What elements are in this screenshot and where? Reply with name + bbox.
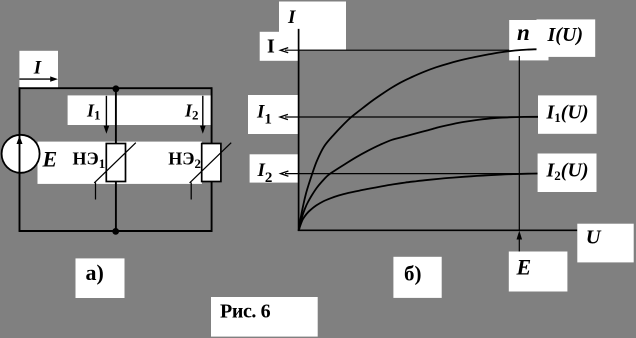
arrow I1 <box>105 96 107 127</box>
value box I1 <box>248 95 298 134</box>
svg-text:E: E <box>516 255 532 280</box>
value box I2 <box>250 154 298 182</box>
svg-text:Рис. 6: Рис. 6 <box>220 301 271 323</box>
nonlinear element НЭ1 body <box>106 144 125 182</box>
label box I (circuit current) <box>19 51 58 88</box>
value box I <box>260 32 299 61</box>
wire right branch НЭ2 <box>211 87 213 231</box>
curve I2(U) <box>299 174 538 231</box>
wire middle branch НЭ1 <box>115 88 117 232</box>
label band E НЭ1 НЭ2 <box>38 142 203 184</box>
wire left <box>19 87 21 231</box>
label band I1 I2 <box>68 95 212 125</box>
nonlinear element НЭ2 body <box>202 144 221 182</box>
svg-text:I: I <box>33 58 42 79</box>
level line I1 with arrow <box>285 116 538 118</box>
arrow E to axis <box>518 238 520 252</box>
НЭ2 diagonal <box>190 143 232 183</box>
label box U <box>577 224 633 263</box>
svg-text:I: I <box>267 36 275 58</box>
wire bottom <box>19 230 213 232</box>
level line I2 with arrow <box>285 173 538 175</box>
svg-text:I(U): I(U) <box>547 24 584 46</box>
svg-text:I2(U): I2(U) <box>546 160 589 184</box>
svg-text:I1(U): I1(U) <box>546 102 589 126</box>
label box а) <box>76 258 125 298</box>
НЭ1 tail <box>95 183 97 200</box>
junction bottom <box>112 228 119 235</box>
vertical line through n to E <box>518 56 520 230</box>
arrow I2 <box>202 96 204 127</box>
wire top <box>19 87 213 89</box>
node box n <box>509 20 548 60</box>
svg-text:I: I <box>287 7 296 28</box>
EMF source E circle <box>2 135 40 173</box>
label box I(U) <box>537 19 596 57</box>
svg-text:E: E <box>42 146 58 171</box>
level line I with arrow <box>285 49 509 51</box>
svg-text:U: U <box>586 227 602 249</box>
label box I2(U) <box>538 154 597 193</box>
EMF arrow <box>17 136 23 144</box>
label box E (voltage) <box>509 252 568 292</box>
label box Рис. 6 <box>211 297 318 337</box>
curve I1(U) <box>299 117 538 231</box>
label box I1(U) <box>538 95 597 133</box>
НЭ1 diagonal <box>94 143 136 183</box>
x axis <box>298 229 578 231</box>
curve I(U) <box>299 49 538 230</box>
junction top <box>113 85 120 92</box>
svg-text:n: n <box>517 20 530 45</box>
axis label box I <box>279 2 346 50</box>
y axis <box>298 29 300 231</box>
НЭ2 tail <box>190 183 192 200</box>
arrow I (current direction) <box>19 78 52 80</box>
label box б) <box>393 257 441 298</box>
svg-text:а): а) <box>86 260 104 285</box>
svg-text:б): б) <box>404 262 422 286</box>
